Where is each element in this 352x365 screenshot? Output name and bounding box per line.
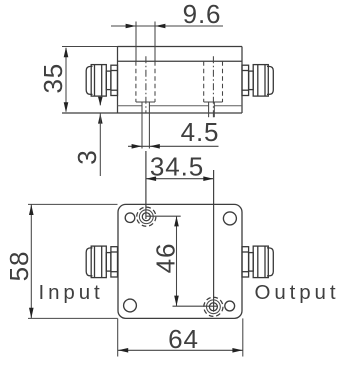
hole 2 hidden outline (dashed) — [203, 61, 205, 102]
dim 64 line — [118, 349, 243, 351]
dim 46 line — [176, 216, 178, 306]
dim 35 extension top — [62, 46, 118, 48]
box right edge — [241, 47, 243, 114]
dim 4.5 line — [128, 145, 219, 147]
dim 46 bottom extension — [173, 305, 219, 307]
dim 58 top extension — [28, 203, 118, 205]
svg-text:Input: Input — [39, 281, 104, 304]
svg-text:35: 35 — [38, 63, 68, 94]
upper feed hole — [142, 213, 150, 221]
dim 35 line — [65, 48, 67, 112]
dim 58 bottom extension — [28, 317, 118, 319]
right connector, front view — [242, 246, 273, 278]
hole 2 centerline — [212, 56, 214, 117]
screw hole bottom-right — [225, 301, 235, 311]
dim 9.6 line with arrows — [111, 25, 223, 27]
svg-text:64: 64 — [168, 324, 199, 354]
svg-text:4.5: 4.5 — [181, 117, 220, 147]
lid inner line — [118, 60, 243, 62]
left connector, top view — [86, 65, 117, 97]
hole 1 centerline — [145, 56, 147, 113]
box left edge — [117, 47, 119, 114]
slot stubs under hole 2 — [208, 102, 210, 117]
svg-text:46: 46 — [151, 243, 181, 274]
lower feed hole — [209, 303, 217, 311]
box top edge — [118, 46, 243, 48]
slot under hole 1 — [141, 102, 143, 149]
svg-text:9.6: 9.6 — [183, 0, 222, 29]
dim 64 left extension — [117, 318, 119, 356]
left connector, front view — [86, 246, 117, 278]
dim 34.5 line — [146, 178, 214, 180]
dim 9.6 extension lines — [135, 22, 137, 62]
svg-text:58: 58 — [4, 251, 34, 282]
svg-text:Output: Output — [255, 281, 340, 304]
svg-text:34.5: 34.5 — [150, 151, 204, 181]
svg-text:3: 3 — [72, 149, 102, 164]
centerline from slot down to front-view hole — [145, 151, 147, 219]
screw hole top-right — [223, 212, 236, 225]
front plate rounded square — [118, 204, 242, 318]
dim 58 line — [30, 204, 32, 318]
box bottom / datum line — [62, 112, 242, 114]
hole 1 hidden outline (dashed) — [135, 61, 137, 102]
inner bottom surface line segments — [118, 105, 143, 107]
dim 3 leader with arrows — [99, 98, 101, 105]
dim 46 top extension — [146, 215, 181, 217]
extension from 34.5 down to lower hole — [213, 170, 215, 312]
screw hole bottom-left — [124, 299, 137, 312]
screw hole top-left — [125, 213, 135, 223]
right connector, top view — [242, 65, 273, 97]
dim 64 right extension — [242, 318, 244, 356]
